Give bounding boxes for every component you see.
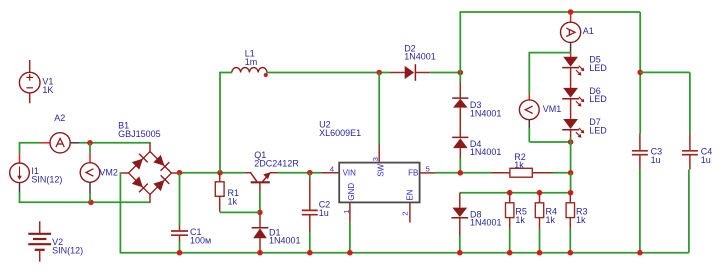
diode D1: [252, 212, 269, 252]
svg-text:1m: 1m: [245, 57, 258, 67]
node dot C1 top: [177, 170, 183, 176]
resistor R3: [566, 193, 574, 253]
svg-text:1N4001: 1N4001: [470, 108, 502, 118]
wire FB to D4 node: [436, 172, 492, 174]
wire C3 to C4 branch: [640, 71, 690, 73]
svg-text:VIN: VIN: [343, 169, 357, 178]
wire D3 to D4 lead: [459, 108, 461, 138]
wire VM1 upper riser: [528, 52, 530, 94]
capacitor C3: [632, 134, 648, 253]
wire R1 to base node: [220, 211, 260, 213]
svg-text:LED: LED: [589, 94, 607, 104]
svg-text:1k: 1k: [576, 215, 586, 225]
node dot GND ground: [347, 250, 353, 256]
svg-text:1k: 1k: [514, 160, 524, 170]
wire VM1 top branch: [529, 52, 570, 54]
node dot D1 ground: [257, 250, 263, 256]
wire D2 to D3 column: [430, 72, 461, 74]
op-amp U2 XL6009E1 box: [339, 163, 419, 203]
wire A2 to bridge top corner: [80, 142, 151, 144]
svg-text:SIN(12): SIN(12): [31, 175, 62, 185]
svg-text:EN: EN: [406, 189, 415, 200]
wire A1 to D5 lead: [570, 53, 572, 57]
svg-text:3: 3: [371, 157, 380, 161]
svg-text:2DC2412R: 2DC2412R: [254, 159, 299, 169]
svg-text:1k: 1k: [228, 197, 238, 207]
svg-text:GBJ15005: GBJ15005: [118, 129, 161, 139]
resistor R5: [506, 193, 514, 253]
wire D7 to FB node: [570, 130, 572, 137]
bridge top lead: [149, 143, 151, 152]
svg-text:1k: 1k: [515, 215, 525, 225]
node dot R3 ground: [568, 250, 574, 256]
node dot base/R1/D1: [257, 210, 263, 216]
svg-text:VM2: VM2: [99, 167, 118, 177]
wire bridge-left to ground rail: [119, 172, 121, 252]
resistor R1: [215, 173, 224, 212]
node dot FB/R2/LED column: [568, 170, 574, 176]
node dot C3 ground: [637, 250, 643, 256]
svg-text:A2: A2: [54, 113, 65, 123]
led D5: [562, 57, 584, 76]
svg-text:1N4001: 1N4001: [404, 52, 436, 62]
wire FB column down: [570, 173, 572, 193]
node dot FB/D4: [458, 170, 464, 176]
svg-text:2: 2: [401, 211, 410, 215]
pin 3 SW lead: [378, 73, 380, 145]
diode D3: [452, 98, 468, 108]
svg-text:LED: LED: [589, 125, 607, 135]
pin 1 GND lead: [349, 202, 351, 222]
node dot R5 ground: [507, 250, 513, 256]
node dot R3 top: [568, 190, 574, 196]
svg-text:4: 4: [330, 165, 334, 174]
bridge diode upper-left: [131, 154, 147, 170]
ammeter A1: [561, 12, 581, 53]
node dot D2/D3/toprail: [458, 70, 464, 76]
wire D5 to D6 lead: [570, 68, 572, 88]
wire D8 to ground: [459, 236, 461, 253]
pin 4 VIN lead: [322, 172, 340, 174]
node dot R4 top: [537, 190, 543, 196]
bridge left lead: [120, 172, 128, 174]
svg-text:SIN(12): SIN(12): [52, 245, 83, 255]
wire top-left corner to A2: [20, 142, 41, 144]
node dot VM2 bottom: [88, 200, 94, 206]
svg-text:VM1: VM1: [543, 104, 562, 114]
node dot C2 top: [307, 170, 313, 176]
voltmeter VM2: [80, 143, 100, 203]
inductor L1: [232, 68, 268, 78]
voltmeter VM1: [519, 94, 539, 128]
bridge bottom lead: [149, 194, 151, 202]
svg-text:XL6009E1: XL6009E1: [319, 128, 361, 138]
node dot A2/VM2 top: [87, 140, 93, 146]
svg-text:1u: 1u: [651, 155, 661, 165]
wire corner to L1: [219, 72, 232, 74]
capacitor C4: [682, 134, 698, 170]
svg-text:1N4001: 1N4001: [470, 147, 502, 157]
wire top rail riser right / C3 column upper: [639, 12, 641, 134]
wire L1 left riser: [219, 72, 221, 173]
bridge diode upper-right: [153, 154, 169, 170]
svg-text:1K: 1K: [42, 85, 53, 95]
svg-text:1: 1: [342, 210, 351, 214]
diode D2: [390, 64, 430, 81]
wire L1 to SW junction: [266, 72, 390, 74]
svg-text:LED: LED: [589, 63, 607, 73]
svg-text:1u: 1u: [701, 155, 711, 165]
svg-text:A1: A1: [583, 26, 594, 36]
node dot C1 ground: [177, 250, 183, 256]
svg-text:1N4001: 1N4001: [269, 236, 301, 246]
resistor R2: [491, 168, 553, 177]
wire bottom of left loop: [20, 201, 151, 203]
node dot C3/C4 branch: [637, 70, 643, 76]
wire lower row: [460, 192, 571, 194]
transistor Q1: [245, 172, 278, 192]
node dot A1 top: [568, 9, 574, 15]
wire GND to ground rail: [349, 223, 351, 253]
svg-text:GND: GND: [347, 183, 356, 201]
wire left vertical: [19, 142, 21, 153]
pin 2 EN lead: [409, 202, 411, 222]
svg-text:FB: FB: [408, 169, 418, 178]
wire bottom ground rail: [120, 252, 689, 254]
wire D4 bottom lead: [459, 148, 461, 158]
led D6: [562, 88, 584, 107]
svg-text:1u: 1u: [319, 208, 329, 218]
voltage source V1: [19, 60, 40, 103]
diode D4: [452, 137, 468, 148]
svg-text:100м: 100м: [190, 236, 211, 246]
wire VM1 bottom branch: [529, 141, 570, 143]
node dot R4 ground: [537, 250, 543, 256]
capacitor C1: [171, 173, 188, 253]
bridge diode lower-left: [131, 176, 147, 192]
pin 5 FB lead: [420, 172, 436, 174]
current source I1: [10, 153, 30, 192]
bridge right lead: [171, 172, 179, 174]
wire mid rail bridge to Q1: [180, 172, 245, 174]
resistor R4: [535, 193, 543, 253]
node dot R5 top: [507, 190, 513, 196]
svg-text:1N4001: 1N4001: [470, 218, 502, 228]
wire I1 to bottom-left corner: [19, 193, 21, 204]
wire Q1 base down: [259, 192, 261, 213]
led D7: [562, 119, 584, 138]
node dot VM1/LED column: [568, 139, 574, 145]
wire VM1 lower riser: [528, 128, 530, 142]
wire R2 to LED column: [553, 172, 571, 174]
wire ground rail right riser to C4: [688, 170, 690, 253]
wire D3 top lead: [459, 73, 461, 83]
node dot L1/R1 column: [217, 170, 223, 176]
capacitor C2: [302, 173, 318, 253]
node dot C2 ground: [307, 250, 313, 256]
svg-text:SW: SW: [377, 163, 386, 176]
diode D8: [451, 193, 468, 236]
battery V2: [28, 221, 51, 261]
bridge rectifier B1 diamond: [129, 152, 172, 195]
node dot SW junction: [376, 70, 382, 76]
wire top rail riser left: [459, 12, 461, 73]
wire mid rail Q1 to VIN: [278, 172, 322, 174]
wire C4 upper riser: [689, 72, 691, 133]
node dot D8 ground: [457, 250, 463, 256]
bridge diode lower-right: [153, 175, 169, 191]
wire top rail: [460, 11, 641, 13]
svg-text:5: 5: [426, 165, 430, 174]
svg-text:1k: 1k: [546, 215, 556, 225]
wire D6 to D7 lead: [570, 99, 572, 119]
ammeter A2: [41, 133, 80, 153]
